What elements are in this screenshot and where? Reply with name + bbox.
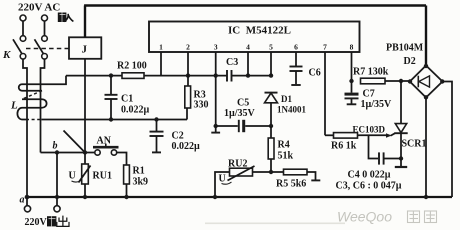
svg-text:1µ/35V: 1µ/35V <box>224 108 256 119</box>
svg-text:AN: AN <box>97 136 112 147</box>
label ru (input) glyph <box>64 14 73 22</box>
pushbutton AN bar <box>93 144 119 147</box>
svg-text:5: 5 <box>269 43 273 52</box>
terminal output L <box>24 197 30 212</box>
relay J coil box <box>69 37 101 59</box>
varistor RU2 leg <box>215 172 230 197</box>
wire main row right of C3 <box>232 75 271 77</box>
svg-text:1N4001: 1N4001 <box>277 105 306 115</box>
resistor R3 <box>185 76 191 120</box>
wire bridge bottom down <box>425 98 427 198</box>
node b RU1 <box>83 150 87 154</box>
svg-text:C3, C6 : 0 047µ: C3, C6 : 0 047µ <box>336 181 402 192</box>
svg-text:2: 2 <box>186 43 190 52</box>
svg-text:a: a <box>20 195 25 206</box>
node pin5 top <box>269 73 273 77</box>
svg-text:R1: R1 <box>133 166 145 177</box>
svg-text:b: b <box>53 141 58 152</box>
wire input N down <box>44 21 46 36</box>
svg-text:220V: 220V <box>25 217 48 228</box>
wire pin7 long <box>324 52 326 135</box>
svg-text:3k9: 3k9 <box>133 177 149 188</box>
svg-text:RU1: RU1 <box>93 171 112 182</box>
svg-text:U: U <box>69 171 76 182</box>
wire pin5 stub <box>270 52 272 76</box>
thyristor SCR1 <box>391 81 408 159</box>
pushbutton AN left contact <box>95 150 100 155</box>
varistor RU2 <box>228 166 255 181</box>
inductor L line B <box>22 90 42 92</box>
svg-text:C6: C6 <box>309 68 321 79</box>
wire pin3 stub <box>215 52 217 76</box>
svg-text:C7: C7 <box>363 89 375 100</box>
label U arrow RU2 <box>219 174 232 185</box>
varistor RU1 <box>79 153 91 198</box>
svg-text:C2: C2 <box>172 131 184 142</box>
wire top bus drop to bridge <box>425 6 427 66</box>
inductor L line D <box>22 107 42 109</box>
node pin3 <box>214 73 218 77</box>
node bridge right vertex <box>440 79 444 83</box>
wire pole2 down with jog <box>41 59 45 152</box>
svg-text:4: 4 <box>246 43 250 52</box>
svg-text:SCR1: SCR1 <box>402 139 427 150</box>
node C1 top <box>109 73 113 77</box>
node C1 bottom <box>109 117 113 121</box>
IC M54122L box <box>149 22 360 53</box>
wire input L down <box>22 21 24 36</box>
capacitor C7 electrolytic <box>345 81 359 104</box>
inductor L line C <box>22 98 42 100</box>
wire pole1 down with jog <box>23 59 27 197</box>
capacitor C5 electrolytic <box>216 120 271 132</box>
svg-text:WeeQoo: WeeQoo <box>337 209 392 225</box>
terminal output N <box>54 206 60 212</box>
pushbutton AN right contact <box>111 150 116 155</box>
terminal input N <box>42 15 48 21</box>
svg-text:R4: R4 <box>278 140 290 151</box>
svg-text:51k: 51k <box>278 151 294 162</box>
wire relay J up to top bus <box>84 6 86 38</box>
svg-text:D2: D2 <box>404 56 416 67</box>
svg-text:C3: C3 <box>226 57 238 68</box>
svg-text:U: U <box>219 174 226 185</box>
bridge rectifier D2 <box>410 66 443 98</box>
label shu (output) glyph blob <box>47 216 56 226</box>
node pin4 <box>246 73 250 77</box>
resistor R2 <box>122 73 144 79</box>
ground stub below C5 node <box>211 126 220 133</box>
svg-text:0.022µ: 0.022µ <box>121 105 150 116</box>
dashed link switch K to relay J <box>26 48 70 50</box>
terminal input L <box>20 15 26 21</box>
svg-text:C4 0 022µ: C4 0 022µ <box>348 170 391 181</box>
node bridge left vertex <box>408 79 412 83</box>
label C5 value <box>224 98 256 120</box>
node RU1 bottom <box>83 195 87 199</box>
inductor L dashed return (behind wires) <box>22 91 42 100</box>
svg-text:R7 130k: R7 130k <box>353 67 389 78</box>
label R4 51k <box>278 140 294 162</box>
capacitor C4 <box>369 135 402 164</box>
scan smudge bottom <box>205 223 345 225</box>
wire pin6 stub <box>295 52 297 67</box>
node R3 top (pin2) <box>186 73 190 77</box>
wire bridge right to border <box>443 82 453 198</box>
capacitor C1 <box>105 76 118 120</box>
svg-text:R2 100: R2 100 <box>117 61 147 72</box>
wire b down to output <box>56 153 58 206</box>
wire AN to R1 <box>117 153 127 166</box>
switch K pole1 blade <box>13 39 22 53</box>
node a <box>25 195 30 200</box>
node RU2 bottom <box>213 195 217 199</box>
svg-text:C5: C5 <box>237 98 249 109</box>
svg-text:RU2: RU2 <box>228 159 247 170</box>
node bridge top vertex <box>424 64 428 68</box>
diode D1 <box>265 93 278 126</box>
label C7 value <box>361 89 393 111</box>
inductor L left arc 2 <box>17 108 22 120</box>
svg-text:L: L <box>10 100 18 112</box>
label C2 value <box>172 131 201 153</box>
wire node b row <box>41 152 95 154</box>
svg-text:7: 7 <box>323 43 327 52</box>
inductor L left arc 1 <box>19 84 22 91</box>
inductor L right arc <box>42 99 47 108</box>
wire main row to IC pins <box>66 75 227 77</box>
node b left <box>55 150 59 154</box>
node R4 bottom <box>269 170 273 174</box>
svg-text:1µ/35V: 1µ/35V <box>361 99 393 110</box>
label D1 1N4001 <box>277 94 306 115</box>
node output2 on bus <box>55 195 59 199</box>
svg-text:C1: C1 <box>121 94 133 105</box>
node bridge bottom on bus <box>424 195 428 199</box>
label R3 330 <box>194 90 209 111</box>
wire lower row (L secondary to R3) <box>22 119 187 121</box>
node D1 bottom <box>269 124 273 128</box>
switch K pole2 bottom contact <box>42 54 48 60</box>
wire pin3 down to C5 <box>215 76 217 126</box>
wire top bus <box>84 4 426 6</box>
label chu (output) glyph <box>57 216 69 227</box>
svg-text:R5 5k6: R5 5k6 <box>276 179 306 190</box>
svg-text:0.022µ: 0.022µ <box>172 141 201 152</box>
svg-text:1: 1 <box>159 43 163 52</box>
node R1 bottom <box>124 195 128 199</box>
svg-text:J: J <box>82 44 88 56</box>
svg-text:220V AC: 220V AC <box>18 2 60 14</box>
svg-text:PB104M: PB104M <box>386 43 424 54</box>
svg-text:R6 1k: R6 1k <box>331 141 357 152</box>
node bridge bottom vertex <box>424 95 428 99</box>
switch K pole1 bottom contact <box>20 54 26 60</box>
capacitor C6 <box>290 67 303 86</box>
svg-text:8: 8 <box>350 43 354 52</box>
wire relay J down to node b <box>84 59 86 153</box>
switch K pole2 blade <box>35 39 44 53</box>
wire RU2 to R4 to R5 <box>253 171 284 173</box>
resistor R6 <box>325 133 392 139</box>
label U arrow RU1 <box>69 171 82 183</box>
capacitor C2 <box>150 120 164 153</box>
inductor L winding line A <box>22 76 66 85</box>
resistor R5 <box>284 169 321 180</box>
relay contact blade at b <box>64 131 86 153</box>
ground stub SCR cathode <box>395 159 407 168</box>
label R1 3k9 <box>133 166 149 188</box>
switch K pole2 top contact <box>42 36 48 42</box>
resistor R4 <box>268 126 274 172</box>
label C1 value <box>121 94 150 116</box>
svg-text:IC M54122L: IC M54122L <box>228 25 291 37</box>
svg-text:3: 3 <box>214 43 218 52</box>
wire pin4 stub <box>247 52 249 76</box>
svg-text:K: K <box>2 49 11 61</box>
wire pin8 stub <box>351 52 353 81</box>
wire pin2 stub <box>187 52 189 76</box>
svg-text:D1: D1 <box>281 94 292 104</box>
node R7 right SCR <box>399 79 403 83</box>
resistor R1 <box>124 165 130 197</box>
label shu (input) glyph blob <box>58 13 67 23</box>
switch K pole1 top contact <box>20 36 26 42</box>
node C2 top <box>154 117 158 121</box>
watermark WeeQoo <box>337 209 437 225</box>
capacitor C3 <box>227 70 232 82</box>
wire pin1 stub <box>160 52 162 76</box>
svg-text:6: 6 <box>294 43 298 52</box>
node pin3 / C5 <box>214 124 218 128</box>
node SCR cathode <box>399 156 403 160</box>
wire bottom bus <box>26 196 452 198</box>
resistor R7 <box>361 78 410 84</box>
node pin8 R7 C7 <box>349 79 353 83</box>
svg-text:330: 330 <box>194 100 209 111</box>
